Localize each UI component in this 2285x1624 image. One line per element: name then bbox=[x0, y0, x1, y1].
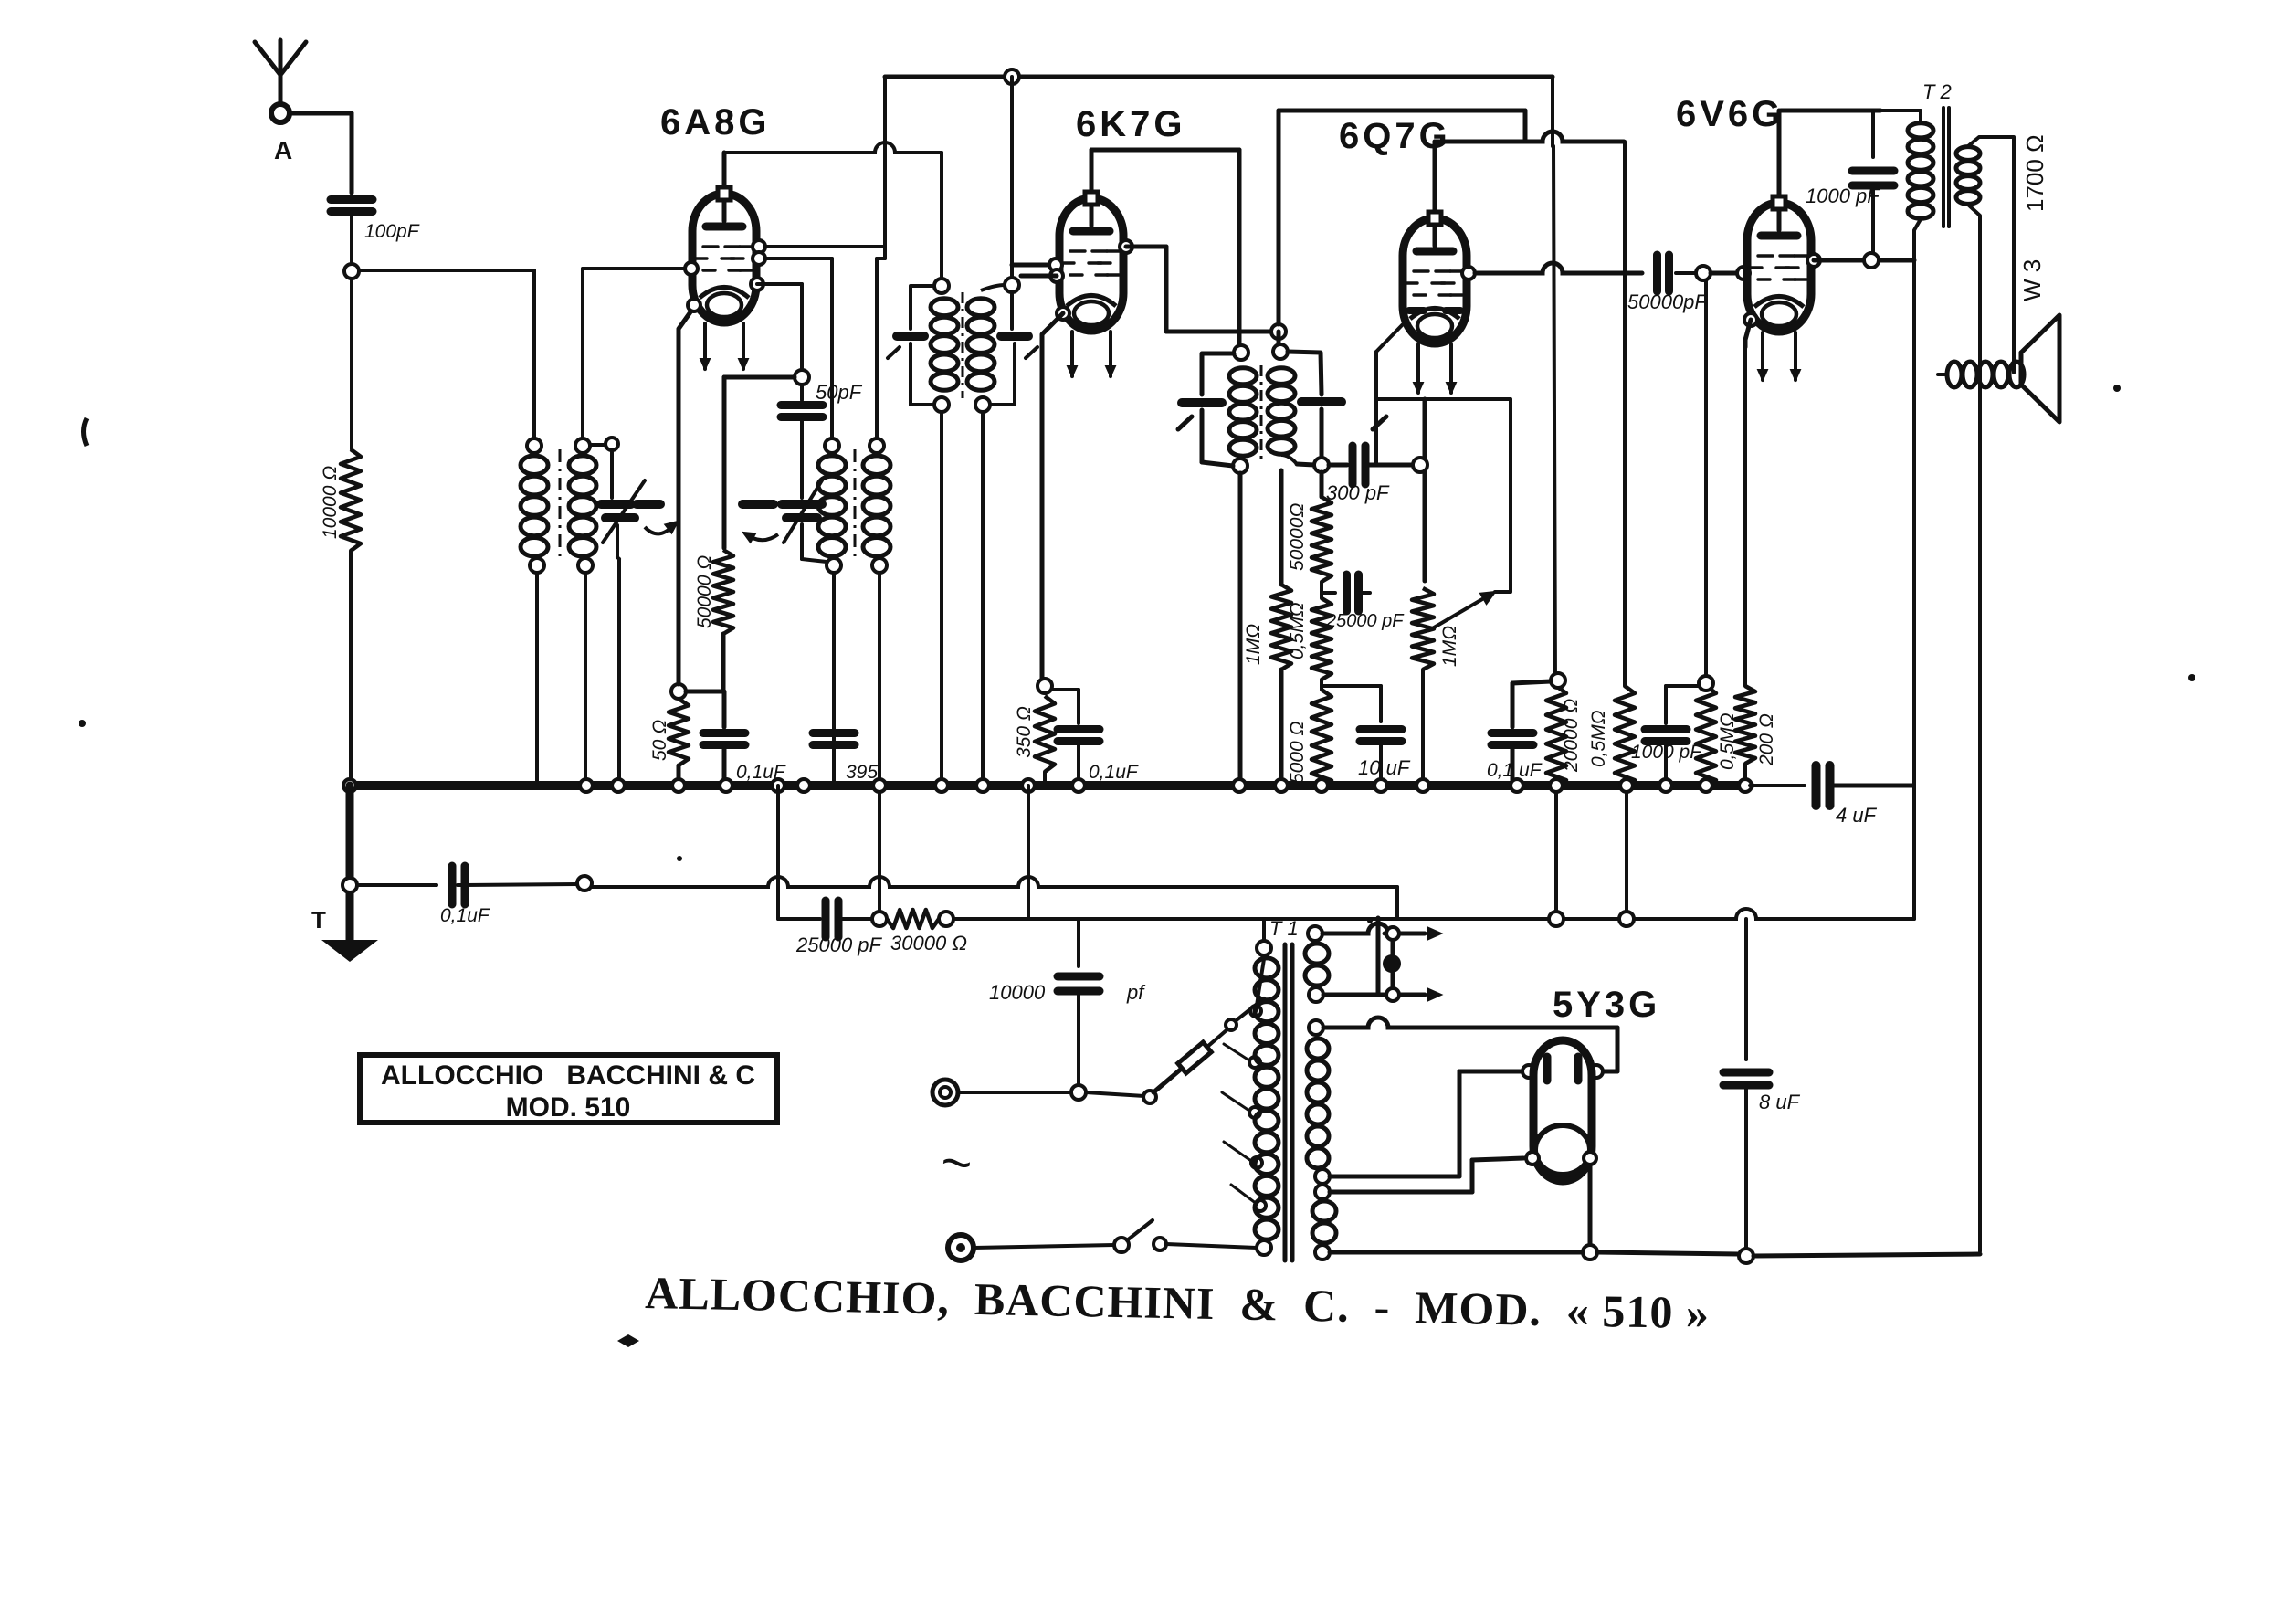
node 50 ohm top bbox=[671, 684, 686, 699]
svg-text:200 Ω: 200 Ω bbox=[1756, 713, 1777, 766]
wire bus drop a bbox=[776, 786, 780, 919]
svg-text:5000 Ω: 5000 Ω bbox=[1287, 721, 1308, 784]
terminal mains A bbox=[932, 1080, 958, 1105]
resistor 50000 ohm osc bbox=[713, 550, 733, 634]
label 10000 ohm bbox=[320, 466, 341, 539]
wire 6A8G osc anode bbox=[0, 0, 1, 1]
svg-text:10000: 10000 bbox=[989, 981, 1046, 1004]
wire bus drop c bbox=[1027, 786, 1030, 919]
wire avc riser bbox=[1623, 142, 1627, 273]
wire HV center tap bbox=[1383, 941, 1401, 987]
wire node down bbox=[350, 279, 353, 449]
switch arm selector bbox=[1143, 1067, 1184, 1103]
trimmer cap osc pad bbox=[742, 504, 778, 543]
label 5000 ohm bbox=[1287, 721, 1308, 784]
selector stub 1 bbox=[1226, 998, 1264, 1030]
wire 6Q7G box bbox=[1279, 111, 1880, 324]
capacitor 1000pF out bbox=[1852, 111, 1894, 253]
resistor 0.5M det bbox=[1311, 598, 1332, 690]
wire plate riser bbox=[1912, 260, 1916, 919]
svg-text:0,1uF: 0,1uF bbox=[1089, 762, 1139, 783]
variable capacitor CV1 bbox=[590, 438, 678, 782]
core IF1 bbox=[962, 292, 964, 398]
node 50000 bottom bbox=[1320, 582, 1323, 598]
coil IF1 secondary bbox=[967, 299, 995, 412]
resistor 20000 ohm bbox=[1546, 135, 1566, 919]
wire ground drop bbox=[346, 786, 354, 940]
wire 6Q7G plate bbox=[1462, 263, 1642, 279]
wire bus drop b bbox=[878, 792, 881, 919]
wire resistor to bus bbox=[349, 551, 353, 782]
svg-text:0,5MΩ: 0,5MΩ bbox=[1588, 710, 1609, 767]
capacitor 25000pF bbox=[1322, 575, 1370, 611]
label 0.1uF A bbox=[736, 762, 786, 783]
resistor 5000 ohm bbox=[1311, 690, 1332, 787]
wire 6K7G cathode bbox=[1042, 307, 1069, 680]
svg-text:50000pF: 50000pF bbox=[1627, 290, 1708, 313]
filament 6V6G b bbox=[1791, 332, 1800, 380]
svg-text:MOD. 510: MOD. 510 bbox=[506, 1092, 631, 1123]
label tilde bbox=[937, 1132, 976, 1195]
filament 6Q7G a bbox=[1414, 344, 1423, 393]
wire 5Y3G fil link bbox=[1330, 1158, 1523, 1192]
label 0.1uF B bbox=[1089, 762, 1139, 783]
svg-text:6V6G: 6V6G bbox=[1676, 94, 1784, 134]
svg-text:T: T bbox=[311, 906, 326, 933]
wire L2 left bbox=[357, 883, 437, 887]
wire L3 left bbox=[778, 917, 820, 921]
core L1/L2 bbox=[559, 449, 562, 559]
svg-text:50000Ω: 50000Ω bbox=[1287, 503, 1308, 571]
wire cathode junction bbox=[686, 690, 723, 694]
wire 25000 to R bbox=[838, 912, 887, 926]
ground bus bbox=[343, 779, 1752, 792]
wire top bus corner right bbox=[1551, 77, 1554, 135]
label 8uF bbox=[1759, 1091, 1801, 1113]
wire HV riser bbox=[1376, 918, 1381, 995]
svg-text:0,5MΩ: 0,5MΩ bbox=[1287, 602, 1308, 659]
capacitor 10000pF bbox=[1058, 919, 1100, 1085]
wire node to L1 top bbox=[359, 270, 534, 438]
resistor 10000 ohm bbox=[341, 449, 361, 551]
svg-text:30000 Ω: 30000 Ω bbox=[890, 932, 967, 954]
wire selector to tap bbox=[1263, 955, 1265, 998]
wire 6K7G plate bbox=[1120, 240, 1271, 332]
node antenna junction bbox=[344, 264, 359, 279]
junction 6A8G pins bbox=[685, 240, 765, 311]
label 0.5M grid bbox=[1717, 712, 1738, 770]
label 0.5M det bbox=[1287, 602, 1308, 659]
label 0.1uF T bbox=[440, 905, 490, 926]
label 395 bbox=[846, 762, 878, 783]
node IF2 left top bbox=[1234, 345, 1248, 360]
tube 6Q7G bbox=[1403, 212, 1467, 343]
capacitor 0.1uF T bbox=[452, 866, 465, 904]
capacitor 1000pF avc bbox=[1645, 686, 1706, 782]
filament 6Q7G b bbox=[1447, 344, 1456, 393]
svg-text:395: 395 bbox=[846, 762, 878, 783]
label T2 bbox=[1922, 80, 1952, 103]
svg-text:6K7G: 6K7G bbox=[1076, 104, 1186, 144]
wire 6V6G cathode bbox=[1744, 313, 1757, 347]
tube 6A8G bbox=[692, 187, 756, 322]
filament 6V6G a bbox=[1758, 332, 1767, 380]
svg-text:W 3: W 3 bbox=[2018, 259, 2046, 301]
fuse bbox=[1178, 1029, 1227, 1073]
svg-text:50pF: 50pF bbox=[816, 381, 863, 404]
capacitor 50000pF bbox=[1658, 255, 1697, 291]
wire 6K7G screen bbox=[1012, 258, 1063, 282]
node 30000 right bbox=[939, 912, 953, 926]
svg-text:50000 Ω: 50000 Ω bbox=[694, 555, 715, 628]
resistor 50 ohm bbox=[669, 699, 689, 782]
svg-text:50 Ω: 50 Ω bbox=[649, 720, 670, 761]
svg-text:350 Ω: 350 Ω bbox=[1014, 706, 1035, 758]
capacitor 0.1uF A bbox=[703, 691, 745, 782]
label 50pF bbox=[816, 381, 863, 404]
svg-text:4 uF: 4 uF bbox=[1836, 804, 1878, 827]
wire osc B plus bbox=[877, 258, 885, 438]
coil L1 antenna primary bbox=[521, 438, 548, 782]
svg-text:1MΩ: 1MΩ bbox=[1439, 626, 1460, 667]
label 200 ohm bbox=[1756, 713, 1777, 766]
wire 6Q7G grid cap bbox=[1435, 132, 1624, 210]
svg-text:1000 pF: 1000 pF bbox=[1806, 185, 1880, 207]
wire T2 sec bottom bbox=[1968, 205, 1980, 1251]
wire 5Y3G heater line bbox=[1323, 1018, 1617, 1078]
resistor 200 ohm bbox=[1735, 347, 1755, 782]
coil T1 sec mid bbox=[1307, 1020, 1330, 1184]
resistor 0.5M grid bbox=[1696, 280, 1716, 787]
coil L4 osc bbox=[863, 438, 890, 782]
svg-text:20000 Ω: 20000 Ω bbox=[1561, 699, 1582, 773]
wire 6A8G plate to bus bbox=[759, 77, 885, 258]
wire 6V6G plate side bbox=[1807, 253, 1914, 268]
wire IF1 right top to bus bbox=[1010, 77, 1014, 278]
capacitor 0.1uF det bbox=[1491, 673, 1565, 782]
filament 6K7G b bbox=[1106, 332, 1115, 376]
svg-text:1000 pF: 1000 pF bbox=[1631, 742, 1702, 763]
label pot 1M bbox=[1439, 626, 1460, 667]
svg-text:pf: pf bbox=[1126, 981, 1146, 1004]
svg-text:T 1: T 1 bbox=[1269, 917, 1299, 940]
svg-text:5Y3G: 5Y3G bbox=[1553, 985, 1660, 1025]
label 50000 ohm osc bbox=[694, 555, 715, 628]
label 100pF bbox=[364, 221, 420, 242]
label 6Q7G bbox=[1339, 116, 1451, 156]
resistor 0.5M avc bbox=[1615, 273, 1635, 919]
wire L2 top to 6A8G grid bbox=[583, 269, 691, 438]
wire 5Y3G cathode bbox=[1526, 1152, 1596, 1245]
core T1 bbox=[1285, 944, 1292, 1260]
label 0.5M avc bbox=[1588, 710, 1609, 767]
label 20000 ohm bbox=[1561, 699, 1582, 773]
coil T1 sec HV top bbox=[1305, 926, 1329, 1002]
wire antenna to C1 bbox=[290, 113, 352, 193]
label 25000pF mains bbox=[795, 933, 883, 956]
capacitor 395 bbox=[813, 733, 855, 745]
label 25000pF bbox=[1325, 611, 1405, 631]
core T2 bbox=[1943, 108, 1949, 227]
title bbox=[645, 1267, 1711, 1338]
coil IF1 primary bbox=[931, 299, 958, 412]
label 1M ohm bbox=[1243, 624, 1264, 665]
node IF1 left top bbox=[934, 279, 949, 293]
label 6A8G bbox=[660, 102, 771, 142]
coil IF2 secondary bbox=[1268, 368, 1297, 464]
variable capacitor CV2 osc bbox=[782, 440, 827, 562]
pot wiper arrow bbox=[1376, 322, 1511, 630]
capacitor 8uF bbox=[1723, 919, 1769, 1249]
resistor 1M ohm bbox=[1271, 464, 1322, 782]
label 50000pF bbox=[1627, 290, 1708, 313]
svg-text:1700 Ω: 1700 Ω bbox=[2021, 135, 2048, 213]
wire IF2 left leg bbox=[1238, 473, 1243, 782]
label 300pF bbox=[1326, 481, 1390, 504]
svg-text:8 uF: 8 uF bbox=[1759, 1091, 1801, 1113]
capacitor 300pF bbox=[1297, 446, 1413, 484]
filament 6A8G b bbox=[739, 323, 748, 369]
wire HV plate b bbox=[1323, 988, 1441, 1001]
wire 6A8G g2 bbox=[757, 284, 802, 370]
label 10000 bbox=[989, 981, 1146, 1004]
speaker horn bbox=[2021, 315, 2059, 422]
potentiometer 1M bbox=[1412, 588, 1434, 782]
coil T2 primary bbox=[1880, 111, 1933, 218]
wire osc grid bbox=[759, 258, 832, 438]
tube 5Y3G bbox=[1533, 1040, 1592, 1181]
node IF1 right top bbox=[1005, 278, 1019, 292]
capacitor 25000pF mains bbox=[826, 901, 838, 937]
node IF2 right top bbox=[1273, 344, 1288, 359]
svg-text:10000 Ω: 10000 Ω bbox=[320, 466, 341, 539]
capacitor 50pF bbox=[781, 370, 823, 440]
coil T1 primary bbox=[1255, 958, 1279, 1255]
label 50 ohm bbox=[649, 720, 670, 761]
tube 6K7G bbox=[1059, 192, 1123, 331]
node L2 left bbox=[342, 878, 357, 892]
trimmer cap IF1 left bbox=[888, 286, 934, 405]
label 4uF bbox=[1836, 804, 1878, 827]
node det out bbox=[1413, 458, 1427, 472]
coil IF2 primary bbox=[1229, 368, 1257, 473]
filament 6K7G a bbox=[1068, 332, 1077, 376]
label 30000 ohm bbox=[890, 932, 967, 954]
speaker voice coil bbox=[1938, 311, 2024, 387]
wire 6V6G grid cap bbox=[1777, 111, 1782, 195]
wire HV plate a bbox=[1322, 923, 1441, 940]
capacitor 4uF bbox=[1816, 765, 1913, 806]
coil L3 osc bbox=[818, 438, 846, 782]
wire det to pot bbox=[1423, 399, 1427, 581]
capacitor 10uF bbox=[1360, 730, 1402, 783]
scan speckles bbox=[79, 385, 2195, 1347]
filament 6A8G a bbox=[700, 323, 710, 369]
wire top bus bbox=[885, 69, 1553, 84]
antenna A bbox=[255, 40, 306, 122]
resistor 30000 ohm bbox=[887, 910, 939, 928]
svg-text:1MΩ: 1MΩ bbox=[1243, 624, 1264, 665]
wire 6A8G grid cap bbox=[724, 142, 942, 279]
label T1 bbox=[1269, 917, 1299, 940]
label 5Y3G bbox=[1553, 985, 1660, 1025]
svg-text:6A8G: 6A8G bbox=[660, 102, 771, 142]
wire 50pF node left bbox=[724, 377, 795, 548]
terminal mains B bbox=[948, 1235, 974, 1260]
antenna label A bbox=[274, 136, 292, 164]
wire B+ bottom bbox=[1597, 1249, 1980, 1263]
node rect out bbox=[1583, 1245, 1597, 1260]
wire mains B bbox=[974, 1220, 1257, 1252]
resistor 350 ohm bbox=[1035, 693, 1055, 782]
label 350 ohm bbox=[1014, 706, 1035, 758]
selector taps bbox=[1222, 959, 1266, 1211]
trimmer cap IF2 left bbox=[1178, 353, 1234, 466]
label box bbox=[360, 1055, 777, 1123]
trimmer cap IF1 right bbox=[981, 285, 1037, 405]
svg-text:ALLOCCHIO BACCHINI & C: ALLOCCHIO BACCHINI & C bbox=[381, 1060, 755, 1091]
core L3/L4 bbox=[854, 449, 857, 559]
label 10uF bbox=[1358, 756, 1411, 779]
svg-text:300 pF: 300 pF bbox=[1326, 481, 1390, 504]
trimmer cap IF2 right bbox=[1279, 332, 1386, 458]
wire T2 sec top bbox=[1968, 137, 2014, 373]
wire mains A bbox=[958, 1085, 1144, 1100]
wire L2 mid bbox=[458, 876, 1397, 919]
label 1700 ohm bbox=[2021, 135, 2048, 213]
wire T1 sec bot out bbox=[1330, 1250, 1583, 1255]
node 0.5M grid top bbox=[1699, 676, 1713, 691]
wire IF1 legs bbox=[942, 412, 983, 782]
wire 50000 to junction bbox=[721, 634, 726, 690]
node 350 top bbox=[1037, 679, 1052, 693]
node 6K7G plate IF2 bbox=[1271, 324, 1286, 339]
label 1000pF avc bbox=[1631, 742, 1702, 763]
label 6K7G bbox=[1076, 104, 1186, 144]
wire 6K7G grid cap bbox=[1091, 150, 1239, 345]
svg-text:25000 pF: 25000 pF bbox=[795, 933, 883, 956]
svg-text:100pF: 100pF bbox=[364, 221, 420, 242]
svg-text:0,1uF: 0,1uF bbox=[440, 905, 490, 926]
svg-text:10 uF: 10 uF bbox=[1358, 756, 1411, 779]
wire L3 main bbox=[953, 909, 1914, 926]
wire T2 primary bottom bbox=[1914, 219, 1921, 260]
wire T1 primary top bbox=[1257, 919, 1271, 955]
label 0.1uF det bbox=[1487, 760, 1543, 781]
label 6V6G bbox=[1676, 94, 1784, 134]
capacitor 0.1uF B bbox=[1052, 690, 1100, 782]
svg-text:A: A bbox=[274, 136, 292, 164]
core IF2 bbox=[1260, 365, 1263, 464]
resistor 50000 ohm det bbox=[1311, 472, 1332, 582]
coil T1 sec fil bbox=[1312, 1185, 1336, 1260]
label 50000 det bbox=[1287, 503, 1308, 571]
wire 5Y3G left plate bbox=[1330, 1065, 1535, 1176]
svg-text:T 2: T 2 bbox=[1922, 80, 1952, 103]
coil L2 antenna secondary bbox=[569, 438, 596, 782]
capacitor 100pF bbox=[331, 200, 373, 265]
ground T bbox=[311, 906, 378, 962]
svg-text:25000 pF: 25000 pF bbox=[1325, 611, 1405, 631]
wire voice coil down bbox=[0, 0, 1, 1]
wire bus to 4uF bbox=[1750, 784, 1805, 787]
wire 6A8G cathode bbox=[679, 307, 694, 684]
label 1000pF out bbox=[1806, 185, 1880, 207]
coil T2 secondary bbox=[1956, 147, 1980, 205]
label W3 bbox=[2018, 259, 2046, 301]
wire 5000 link bbox=[1322, 686, 1381, 722]
node 50000pF out bbox=[1696, 266, 1750, 280]
tube 6V6G bbox=[1747, 196, 1811, 332]
